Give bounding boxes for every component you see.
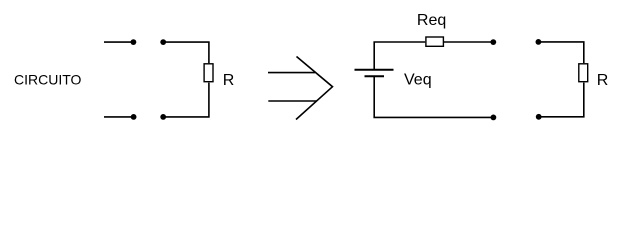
svg-text:R: R (223, 72, 235, 89)
resistor R (right load) (579, 64, 588, 82)
wire top-left terminal lead (104, 41, 133, 43)
node terminal bottom (right load side) (536, 114, 542, 120)
node terminal A' (top, load side) (160, 39, 166, 45)
svg-text:CIRCUITO: CIRCUITO (14, 71, 82, 87)
wire from Req to output node top (444, 41, 493, 43)
node terminal A (top, circuit side) (131, 39, 137, 45)
node terminal B' (bottom, load side) (160, 114, 166, 120)
implication arrow chevron (296, 57, 333, 120)
implication arrow bottom line (268, 100, 316, 102)
svg-text:Req: Req (417, 12, 446, 29)
wire from resistor R bottom to B' (163, 83, 209, 117)
implication arrow top line (268, 72, 315, 74)
svg-text:Veq: Veq (404, 71, 432, 88)
node terminal top (right load side) (536, 39, 542, 45)
wire from A' to resistor R top (163, 42, 209, 63)
wire bottom-left terminal lead (104, 116, 134, 118)
resistor Req (426, 37, 444, 46)
wire from battery - terminal down and right to output node bottom (374, 77, 493, 117)
wire from top node to resistor R (right) (538, 42, 583, 63)
wire from resistor R (right) bottom to bottom node (539, 83, 584, 117)
battery Veq long plate (+) (355, 69, 394, 71)
battery Veq short plate (-) (365, 75, 385, 77)
node terminal B (bottom, circuit side) (131, 114, 137, 120)
node output terminal bottom (491, 115, 497, 121)
resistor R (left load) (204, 64, 213, 82)
node output terminal top (490, 39, 496, 45)
wire from battery + terminal up and right to Req (374, 42, 425, 69)
svg-text:R: R (597, 72, 609, 89)
